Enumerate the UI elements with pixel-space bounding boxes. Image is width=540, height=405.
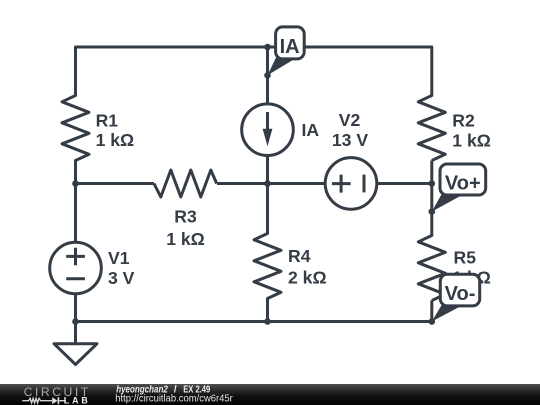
wire top-right L segment — [268, 47, 432, 97]
resistor R2 body — [418, 96, 445, 161]
wire current source bottom lead — [266, 155, 269, 184]
svg-text:R2: R2 — [452, 111, 475, 131]
flag Vo- tail — [432, 304, 463, 322]
junction node dot left-mid — [72, 180, 79, 187]
flag Vo- box — [440, 274, 479, 306]
flag Vo+ box — [440, 164, 486, 195]
wire IA branch from top rail to current source — [266, 47, 269, 105]
svg-text:IA: IA — [280, 36, 300, 58]
wire top-left L segment — [76, 47, 268, 97]
junction node dot right-bottom — [429, 318, 436, 325]
voltage source V1 circle — [50, 242, 102, 294]
node dot Vo+ flag attach — [429, 208, 436, 215]
resistor R4 body — [254, 234, 281, 299]
resistor R5 body — [418, 236, 445, 301]
junction node dot top rail — [264, 44, 271, 51]
flag IA tail — [268, 55, 298, 76]
svg-text:R3: R3 — [174, 207, 197, 227]
svg-text:LAB: LAB — [64, 395, 88, 405]
svg-text:R1: R1 — [96, 110, 119, 130]
voltage source V2 minus bar — [363, 175, 366, 193]
voltage source V2 circle — [325, 158, 377, 210]
current source U1 circle — [242, 104, 294, 156]
resistor R3 body — [154, 170, 217, 197]
junction node dot left-bottom — [72, 318, 79, 325]
wire middle rail center (R3 to V2) — [217, 182, 325, 185]
logo diode symbol — [52, 397, 57, 404]
voltage source V2 plus sign — [332, 175, 351, 193]
svg-text:V2: V2 — [339, 110, 361, 130]
wire R4 bottom lead — [266, 298, 269, 322]
wire V1 bottom to ground — [74, 294, 77, 344]
junction node dot center-mid — [264, 180, 271, 187]
wire R4 top lead — [266, 184, 269, 235]
current source U1 arrowhead — [263, 129, 273, 146]
voltage source V1 plus sign — [66, 248, 85, 266]
footer bar — [0, 384, 540, 405]
flag IA box — [276, 27, 305, 59]
svg-text:IA: IA — [302, 120, 320, 140]
svg-text:Vo-: Vo- — [445, 283, 476, 305]
svg-text:3 V: 3 V — [108, 268, 135, 288]
svg-text:1 kΩ: 1 kΩ — [96, 130, 135, 150]
svg-text:Vo+: Vo+ — [445, 173, 481, 195]
wire middle rail right (V2 to right rail) — [377, 182, 432, 185]
wire bottom rail — [76, 320, 432, 323]
svg-text:http://circuitlab.com/cw6r45r: http://circuitlab.com/cw6r45r — [115, 393, 233, 405]
resistor R1 body — [62, 96, 89, 161]
wire middle rail left (node to R3) — [76, 182, 155, 185]
junction node dot right-mid — [429, 180, 436, 187]
ground symbol — [54, 344, 97, 365]
svg-text:1 kΩ: 1 kΩ — [166, 229, 205, 249]
wire left rail R1 to V1 — [74, 160, 77, 244]
svg-text:V1: V1 — [108, 248, 130, 268]
current source U1 arrow shaft — [266, 112, 269, 131]
voltage source V1 minus sign — [66, 277, 85, 280]
node dot IA flag attach — [264, 72, 271, 79]
logo resistor squiggle — [22, 398, 52, 403]
svg-text:13 V: 13 V — [332, 130, 368, 150]
svg-text:1 kΩ: 1 kΩ — [452, 131, 491, 151]
svg-text:R4: R4 — [288, 246, 311, 266]
junction node dot center-bottom — [264, 318, 271, 325]
svg-text:2 kΩ: 2 kΩ — [288, 268, 327, 288]
svg-text:R5: R5 — [454, 248, 477, 268]
wire right rail R2 to R5 — [430, 161, 433, 237]
wire R5 bottom lead — [430, 301, 433, 322]
flag Vo+ tail — [432, 193, 464, 212]
